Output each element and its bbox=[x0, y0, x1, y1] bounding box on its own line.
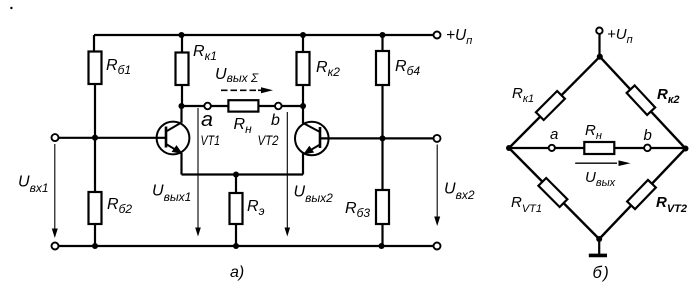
resistor Rk2 bbox=[297, 52, 310, 85]
svg-text:Uвых1: Uвых1 bbox=[152, 183, 191, 205]
svg-text:+Uп: +Uп bbox=[607, 26, 633, 46]
wire Rk2 top bbox=[302, 35, 304, 52]
wire Rn to b (b) bbox=[614, 147, 644, 149]
wire right column lower bbox=[381, 224, 383, 246]
terminal input2 top bbox=[434, 135, 441, 142]
svg-text:Rк2: Rк2 bbox=[657, 86, 680, 106]
svg-text:+Uп: +Uп bbox=[446, 27, 472, 47]
svg-text:Rб3: Rб3 bbox=[345, 200, 370, 220]
wire Rk1 top bbox=[181, 35, 183, 53]
node left (b) bbox=[506, 145, 512, 151]
resistor Rb3 bbox=[376, 190, 389, 224]
node right (b) bbox=[683, 146, 689, 152]
arrow Uvyx-sum dashed bbox=[221, 87, 273, 93]
transistor VT2 bbox=[295, 122, 329, 156]
svg-text:Rэ: Rэ bbox=[247, 198, 265, 218]
svg-text:Uвх2: Uвх2 bbox=[444, 181, 475, 203]
svg-text:Rн: Rн bbox=[585, 122, 602, 142]
wire bottom rail (a) bbox=[58, 245, 433, 247]
svg-text:а: а bbox=[201, 109, 213, 131]
wire node b to collector VT2 bbox=[282, 105, 304, 107]
measure line Uvyx1 bbox=[195, 108, 201, 237]
svg-text:Uвх1: Uвх1 bbox=[18, 174, 49, 196]
junction base VT2 / right column bbox=[379, 135, 385, 141]
node top (b) bbox=[597, 54, 603, 60]
svg-text:а: а bbox=[550, 126, 558, 143]
wire a to Rn (b) bbox=[555, 147, 585, 149]
terminal input1 top bbox=[52, 134, 59, 141]
arrow Uvyx (b) bbox=[575, 160, 630, 166]
wire VT2 base to right column bbox=[320, 137, 383, 139]
junction emitter rail / Re bbox=[233, 171, 239, 177]
resistor Rb2 bbox=[89, 192, 102, 224]
svg-text:а): а) bbox=[230, 264, 244, 281]
terminal input1 bottom bbox=[52, 243, 59, 250]
wire VT1 collector bbox=[180, 106, 182, 123]
wire Rk2 bottom bbox=[302, 85, 304, 106]
wire Re top bbox=[235, 175, 237, 194]
wire input1 to base VT1 bbox=[58, 137, 166, 139]
junction bottom rail / Rb2 bbox=[92, 243, 98, 249]
resistor Rk1 (b) bbox=[536, 91, 565, 120]
wire collector VT1 to node a bbox=[182, 105, 205, 107]
svg-text:b: b bbox=[271, 112, 280, 129]
svg-text:Rк2: Rк2 bbox=[316, 59, 340, 79]
terminal +Un (a) bbox=[434, 32, 441, 39]
svg-text:Rб2: Rб2 bbox=[107, 196, 132, 216]
wire left node to a (b) bbox=[509, 147, 549, 149]
svg-text:Rн: Rн bbox=[234, 116, 253, 136]
resistor Rk2 (b) bbox=[627, 85, 656, 114]
wire VT2 collector bbox=[302, 106, 304, 124]
junction Rk1 top rail bbox=[178, 32, 184, 38]
wire top supply rail (a) bbox=[94, 34, 434, 36]
wire VT1 emitter bbox=[180, 153, 182, 175]
junction bottom rail / Re bbox=[233, 243, 239, 249]
terminal +Un (b) bbox=[596, 28, 602, 34]
junction Rb4 top rail bbox=[379, 32, 385, 38]
arrow Uvx2 bbox=[434, 145, 440, 227]
junction Rk2 top rail bbox=[300, 32, 306, 38]
terminal node a bbox=[204, 103, 211, 110]
resistor Rb1 bbox=[89, 52, 102, 85]
wire VT2 emitter bbox=[302, 154, 304, 175]
svg-text:Uвых2: Uвых2 bbox=[294, 184, 334, 206]
svg-text:RVT2: RVT2 bbox=[656, 194, 687, 215]
resistor Rvt2 (b) bbox=[627, 180, 656, 209]
terminal b (b) bbox=[644, 145, 651, 152]
node bottom (b) bbox=[596, 236, 602, 242]
wire left column upper bbox=[93, 35, 95, 52]
wire left column middle bbox=[94, 84, 96, 192]
wire arm top-right (b) bbox=[600, 57, 686, 149]
svg-text:б): б) bbox=[593, 264, 611, 282]
resistor Rn (b) bbox=[584, 142, 614, 154]
junction input1/Rb column bbox=[92, 135, 98, 141]
resistor Rb4 bbox=[376, 51, 389, 85]
wire Rk1 bottom bbox=[181, 85, 183, 106]
wire +Un stem (b) bbox=[598, 34, 600, 57]
speck top-left bbox=[10, 7, 12, 9]
arrow Uvx1 bbox=[52, 144, 58, 238]
terminal a (b) bbox=[549, 145, 555, 151]
resistor Rn (a) bbox=[228, 100, 258, 111]
svg-text:Uвых Σ: Uвых Σ bbox=[215, 66, 259, 85]
wire arm top-left (b) bbox=[509, 57, 600, 148]
wire node a to Rn bbox=[211, 105, 229, 107]
junction node a column bbox=[178, 103, 184, 109]
ground (b) bbox=[589, 239, 607, 255]
svg-text:RVT1: RVT1 bbox=[511, 194, 542, 215]
wire arm bottom-left (b) bbox=[509, 148, 599, 239]
wire left column lower bbox=[94, 224, 96, 246]
resistor Rvt1 (b) bbox=[538, 178, 567, 207]
svg-text:Rк1: Rк1 bbox=[193, 43, 217, 63]
wire Rn to node b bbox=[258, 105, 275, 107]
junction bottom rail / Rb3 bbox=[378, 243, 384, 249]
terminal node b bbox=[275, 103, 282, 110]
measure line Uvyx2 bbox=[285, 112, 291, 237]
wire arm bottom-right (b) bbox=[599, 149, 685, 240]
wire Re bottom bbox=[235, 224, 237, 246]
transistor VT1 bbox=[157, 122, 190, 155]
svg-text:Rб4: Rб4 bbox=[395, 58, 420, 78]
wire emitter rail bbox=[182, 173, 304, 175]
wire right column upper bbox=[381, 35, 383, 51]
svg-text:Rк1: Rк1 bbox=[512, 85, 534, 105]
wire right column middle bbox=[381, 85, 383, 190]
resistor Re bbox=[230, 193, 243, 224]
svg-text:VT1: VT1 bbox=[201, 132, 221, 148]
svg-text:Rб1: Rб1 bbox=[106, 57, 131, 77]
svg-text:VT2: VT2 bbox=[258, 132, 279, 148]
svg-text:b: b bbox=[644, 127, 652, 144]
svg-text:Uвых: Uвых bbox=[585, 169, 616, 189]
junction node b column bbox=[300, 103, 306, 109]
resistor Rk1 bbox=[176, 53, 189, 86]
wire b to right node (b) bbox=[651, 147, 686, 149]
wire base row to input2 bbox=[383, 137, 434, 139]
terminal input2 bottom bbox=[434, 243, 441, 250]
